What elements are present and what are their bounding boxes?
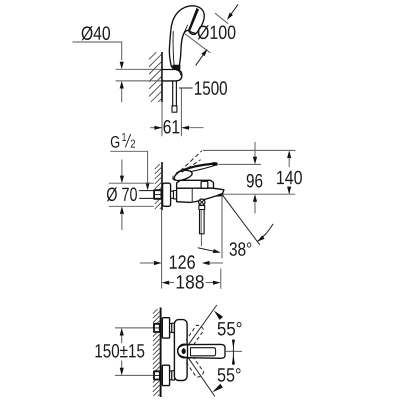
extension line y150 (raised lever top) <box>203 149 296 151</box>
label 55deg upper <box>218 322 242 336</box>
shower holder <box>162 70 182 81</box>
G 1/2 label <box>111 136 119 148</box>
rotated handle position (dashed, up) <box>186 325 204 345</box>
lever grip loop <box>174 170 192 180</box>
diverter knob (square) <box>201 181 208 188</box>
shower head bottom rim <box>189 31 196 34</box>
label 126 <box>170 255 195 269</box>
dimension 96 <box>254 142 256 158</box>
label 1500 <box>195 81 227 95</box>
dimension Ø40 extension lines <box>116 68 162 70</box>
38 degree pointer arrow <box>198 248 214 251</box>
wall extension line down <box>161 210 163 288</box>
lever handle blade <box>177 164 216 174</box>
pivot dome (top view) <box>178 344 191 358</box>
dimension Ø100 tangent lines <box>215 13 228 24</box>
union nut (c=375.4) <box>154 371 160 379</box>
extension line y164 (lever top) <box>219 163 261 165</box>
label 55deg lower <box>218 368 241 382</box>
label 96 <box>247 174 263 188</box>
union flange <box>162 318 169 338</box>
label Ø40 <box>82 26 111 40</box>
supply extension lines <box>115 327 154 329</box>
supply pipe stub <box>140 190 155 192</box>
hand shower body <box>169 6 204 67</box>
mixer body and spout <box>177 188 224 202</box>
pull rod <box>200 210 205 234</box>
wall hatch (bottom) <box>153 309 160 396</box>
wall hatch (shower holder wall) <box>149 52 161 102</box>
blade thickness arrows <box>232 339 234 365</box>
label Ø100 <box>198 25 236 39</box>
dimension 140 <box>288 158 290 168</box>
union rings <box>171 191 174 198</box>
label 140 <box>277 171 302 185</box>
wall hatch (mid) <box>155 164 161 209</box>
label 188 <box>177 275 204 289</box>
union flange <box>162 365 169 385</box>
wall line (bottom) <box>160 308 162 398</box>
38 degree arc <box>257 224 273 242</box>
mixer body (top view) <box>174 320 187 381</box>
dimension 150+-15 <box>121 335 123 344</box>
dimension 126 <box>140 262 154 264</box>
neck inner line <box>185 25 188 31</box>
extension line y194 (spout level) <box>223 193 296 195</box>
blade inner detail <box>191 348 216 356</box>
union rings <box>170 371 172 380</box>
body-spout joint line <box>191 188 193 201</box>
handle inner line <box>173 32 174 67</box>
dimension Ø40 leader <box>73 42 122 60</box>
escutcheon <box>163 183 171 206</box>
label Ø70 <box>107 187 137 201</box>
wall line (mid) <box>161 162 163 210</box>
dimension Ø100 arrows <box>229 4 239 17</box>
handle centerline <box>226 350 242 352</box>
label 61 <box>164 120 180 134</box>
38 degree flow line <box>222 194 260 244</box>
shower spray face <box>188 8 199 32</box>
hose end fitting <box>172 106 177 112</box>
union nut behind wall <box>154 190 161 199</box>
handle blade (top view) <box>188 344 226 358</box>
dimension 188 <box>169 282 174 284</box>
55deg ray down <box>184 351 215 396</box>
union nut (c=327.9) <box>154 324 160 332</box>
dimension 61 <box>161 102 163 136</box>
union rings <box>170 324 172 333</box>
38deg vertex vertical / 188 right extension <box>221 194 223 258</box>
hose length leader <box>179 87 193 89</box>
G 1/2 leader <box>110 151 147 182</box>
55deg ray up <box>184 305 217 351</box>
spout outlet <box>216 192 223 196</box>
wall line (top section) <box>161 52 163 102</box>
rod extension line <box>200 234 202 246</box>
hose connector nut <box>172 65 180 70</box>
label 150+-15 <box>96 344 145 358</box>
dimension Ø70 <box>109 182 154 184</box>
shower hose <box>172 81 174 106</box>
rotated handle position (dashed, down) <box>186 357 204 377</box>
dome redraw over blade <box>178 345 191 358</box>
raised lever (dashed) <box>175 151 202 176</box>
pivot dark oval <box>182 348 186 354</box>
label 38deg <box>230 242 252 256</box>
mixer housing <box>177 180 214 188</box>
pull rod collar <box>199 205 205 209</box>
diverter pull knob <box>199 199 205 205</box>
